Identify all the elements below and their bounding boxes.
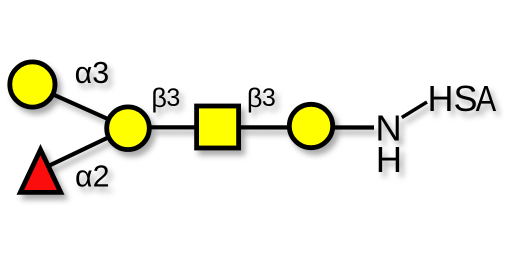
svg-text:β3: β3 (247, 83, 276, 113)
svg-text:β3: β3 (151, 83, 180, 113)
svg-text:HS: HS (428, 78, 478, 119)
svg-text:α3: α3 (75, 56, 110, 90)
svg-text:A: A (476, 80, 497, 120)
svg-text:α2: α2 (75, 160, 110, 194)
svg-text:H: H (376, 139, 402, 180)
